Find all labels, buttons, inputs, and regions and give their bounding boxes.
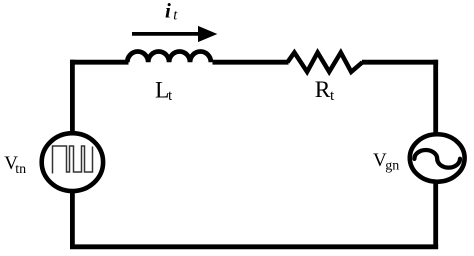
svg-text:tn: tn [15, 162, 26, 177]
wire right vertical lower segment [433, 182, 438, 249]
pulse waveform symbol inside Vtn [53, 146, 93, 174]
resistor Rt [288, 53, 363, 72]
svg-text:R: R [315, 77, 331, 103]
svg-text:t: t [330, 88, 335, 104]
svg-text:i: i [165, 0, 171, 23]
source Vgn circle [410, 134, 465, 182]
wire left vertical lower segment [70, 191, 75, 249]
svg-text:gn: gn [385, 159, 399, 174]
sine symbol inside Vgn [414, 150, 460, 168]
wire top-left horizontal segment [70, 60, 129, 65]
svg-text:t: t [173, 8, 178, 24]
inductor Lt [127, 52, 211, 63]
wire between resistor and right corner [362, 60, 438, 65]
wire bottom horizontal [70, 244, 438, 249]
svg-text:t: t [168, 88, 173, 104]
wire left vertical upper segment [70, 60, 75, 134]
wire between inductor and resistor [213, 60, 289, 65]
source Vtn circle [42, 133, 103, 191]
current arrow it [132, 26, 217, 42]
wire right vertical upper segment [433, 60, 438, 135]
